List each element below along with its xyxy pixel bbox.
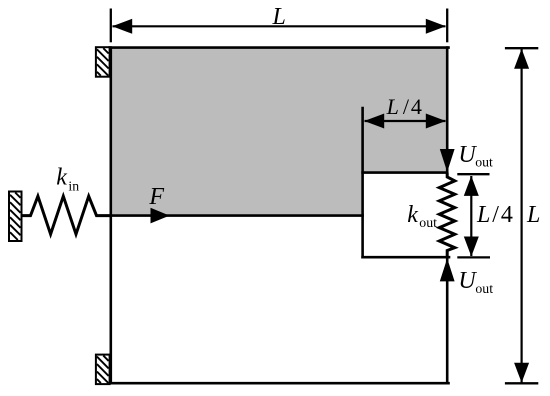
design domain left edge [110, 48, 113, 384]
bottom-left fixed support (hatched) [96, 355, 110, 385]
design domain bottom edge [110, 382, 449, 385]
svg-text:L: L [476, 202, 490, 228]
svg-text:L: L [526, 202, 540, 228]
right dimension L: top extension tick [505, 48, 538, 383]
top dimension L: line [113, 25, 446, 27]
top dimension L: right arrowhead [426, 19, 446, 34]
label L/4 (right) [476, 202, 513, 228]
L/4 vertical: top arrowhead [464, 176, 479, 196]
svg-text:in: in [68, 178, 79, 193]
svg-text:L: L [386, 94, 399, 119]
L/4 vertical dimension: bottom extension tick [457, 256, 490, 258]
top dimension L: left arrowhead [112, 19, 132, 34]
L/4 horizontal: right arrowhead [426, 114, 446, 129]
spring k_out [439, 173, 455, 258]
L/4 horizontal: left arrowhead [364, 114, 384, 129]
svg-text:out: out [475, 155, 493, 170]
U_out bottom: upward arrowhead [440, 258, 455, 281]
gray mid boundary / F arrow shaft [111, 214, 363, 217]
force F arrowhead [151, 208, 170, 224]
svg-text:4: 4 [411, 94, 422, 119]
spring k_in [22, 196, 111, 234]
svg-text:/: / [492, 202, 499, 228]
right dimension L: bottom arrowhead [514, 363, 529, 383]
input spring anchor wall (hatched) [9, 192, 22, 242]
L/4 vertical dimension: top extension tick [457, 174, 490, 257]
gray step boundary above k_out [363, 171, 448, 174]
gray material region [111, 48, 447, 216]
svg-text:/: / [403, 94, 410, 119]
L/4 vertical dimension: line [470, 176, 472, 256]
svg-text:4: 4 [501, 202, 513, 228]
output region bottom edge [363, 256, 449, 259]
svg-text:out: out [419, 215, 437, 230]
L/4 horizontal dimension line [365, 120, 446, 122]
top dimension L: right extension tick [446, 9, 448, 43]
output region left edge / L4 dim tick [361, 108, 364, 257]
svg-text:k: k [407, 202, 418, 228]
svg-text:out: out [475, 281, 493, 296]
right dimension L: top arrowhead [514, 49, 529, 69]
top-left fixed support (hatched) [96, 47, 110, 76]
svg-text:F: F [148, 184, 164, 210]
right dimension L: bottom extension tick [505, 382, 538, 384]
design domain right edge upper segment [446, 48, 449, 173]
right dimension L: line [520, 49, 522, 383]
L/4 vertical: bottom arrowhead [464, 237, 479, 257]
label L/4 (top) [386, 94, 422, 119]
svg-text:k: k [56, 165, 67, 191]
top dimension L: left extension tick [111, 9, 447, 43]
design domain top edge [110, 46, 449, 49]
U_out top: downward arrowhead [440, 149, 455, 172]
design domain right edge lower segment / U_out arrow shaft [446, 257, 449, 383]
svg-text:L: L [272, 4, 286, 30]
